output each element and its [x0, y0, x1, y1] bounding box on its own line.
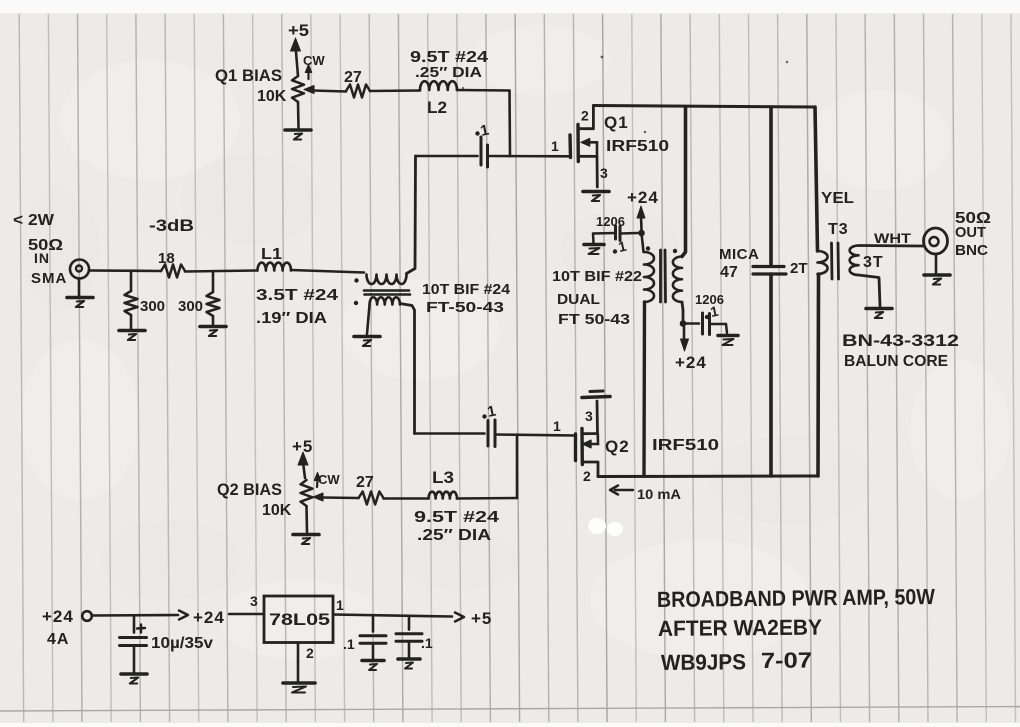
text 3 (reg input pin) [250, 593, 258, 609]
resistor 27 (Q2 bias) [359, 492, 384, 505]
text 18 [158, 250, 175, 267]
terminal +24 input [82, 611, 92, 621]
text OUT [955, 224, 986, 241]
text .25in DIA (L2) [415, 64, 482, 81]
wire attenuator middle [185, 271, 257, 272]
text 2T [790, 260, 808, 277]
svg-text:.1: .1 [421, 635, 433, 651]
svg-text:47: 47 [720, 264, 738, 281]
text BN-43-3312 [842, 331, 959, 350]
text 1 (Q1 gate pin) [551, 138, 559, 154]
svg-text:-3dB: -3dB [149, 216, 194, 235]
wire +24 to regulator [229, 613, 264, 616]
text 1206 (Q1 side) [596, 214, 625, 229]
svg-text:T3: T3 [828, 221, 849, 238]
svg-text:FT 50-43: FT 50-43 [558, 311, 630, 328]
transistor Q1 gate bar [568, 135, 572, 158]
inductor L2 [420, 81, 457, 90]
text 10K (Q1) [257, 88, 287, 105]
svg-text:WB9JPS: WB9JPS [661, 649, 746, 675]
text .1 (bypass B) [421, 635, 433, 651]
svg-text:YEL: YEL [821, 190, 854, 207]
wire MICA cap riser [769, 107, 773, 266]
text +5 output [471, 609, 492, 628]
svg-text:IRF510: IRF510 [606, 138, 669, 155]
arrow +24 down (Q2 side) [681, 327, 689, 351]
svg-text:BN-43-3312: BN-43-3312 [842, 331, 959, 350]
text BROADBAND PWR AMP, 50W [657, 584, 935, 612]
wire T3 primary to bottom rail [816, 274, 820, 476]
wire 27 to Q2 pot wiper with arrow [313, 493, 359, 501]
svg-text:FT-50-43: FT-50-43 [426, 299, 504, 316]
text 3T [863, 254, 884, 271]
text 2 (Q1 drain pin) [581, 108, 589, 124]
wire riser to C1 [416, 155, 478, 158]
wire T3 secondary to BNC (WHT) [859, 244, 924, 247]
wire C2 to Q2 gate [495, 435, 576, 436]
phase dot T2 left [646, 246, 650, 250]
text +24 (at regulator) [193, 608, 225, 627]
svg-text:10T BIF #24: 10T BIF #24 [422, 281, 511, 298]
text .1 at C2 [482, 403, 497, 421]
svg-text:.25″ DIA: .25″ DIA [415, 64, 482, 81]
text 10 mA [637, 486, 681, 502]
transformer T2 left winding [644, 252, 654, 302]
wire T2 right winding to +24 node (Q2 side) [682, 302, 683, 324]
ground below bypass B [398, 659, 420, 669]
text IRF510 (Q1) [606, 138, 669, 155]
svg-text:MICA: MICA [719, 246, 759, 263]
svg-text:3: 3 [585, 408, 593, 424]
text 300 (left) [140, 298, 165, 315]
potentiometer Q2 BIAS 10K [301, 480, 313, 532]
text 1 (Q2 gate pin) [553, 418, 561, 434]
wire +24 input with arrow [92, 611, 188, 620]
text DUAL [557, 291, 600, 308]
wire Q2 bias feed dropper [516, 435, 519, 499]
transistor Q1 body arrow [581, 138, 597, 156]
text WHT [874, 230, 912, 246]
wire T2 left winding to bottom rail [642, 302, 646, 476]
text Q1 [604, 113, 629, 132]
svg-text:4A: 4A [47, 631, 69, 648]
capacitor MICA 47 [753, 267, 786, 275]
svg-text:IN: IN [34, 250, 50, 266]
svg-text:+24: +24 [42, 607, 74, 626]
svg-text:SMA: SMA [31, 270, 67, 287]
resistor 27 (Q1 bias) [346, 85, 370, 98]
svg-text:BROADBAND PWR AMP, 50W: BROADBAND PWR AMP, 50W [657, 584, 935, 612]
ground below Q2 bias pot [293, 535, 319, 545]
ground below T1 secondary [354, 337, 380, 347]
wire dropper to C2 [415, 432, 485, 435]
transformer T2 right winding [673, 257, 682, 303]
text 2 (Q2 drain pin) [583, 468, 591, 484]
svg-text:2: 2 [581, 108, 589, 124]
transistor Q2 drain stub pin 2 [582, 462, 598, 477]
transistor Q2 source stub pin 3 [582, 401, 598, 434]
svg-text:CW: CW [318, 472, 340, 487]
svg-text:+5: +5 [292, 437, 313, 456]
svg-text:2: 2 [583, 468, 591, 484]
wire dropper to L3 [457, 497, 517, 500]
text FT-50-43 [426, 299, 504, 316]
svg-text:L3: L3 [432, 468, 454, 487]
capacitor 1206 .1 (Q2 side) [683, 313, 727, 335]
wire L1 to transformer T1 [291, 270, 364, 273]
text CW (Q2) [318, 472, 340, 487]
svg-text:.19″ DIA: .19″ DIA [256, 310, 328, 327]
text input impedance 50 ohm [28, 237, 63, 254]
svg-text:DUAL: DUAL [557, 291, 600, 308]
wire T1 primary to coupling cap C1 (riser) [407, 156, 416, 274]
text -3dB [149, 216, 194, 235]
text 3 (Q1 source pin) [600, 165, 608, 181]
wire node to T2 left winding [642, 233, 644, 252]
wire Q1 bias feed riser [508, 91, 511, 157]
text 2 (reg ground pin) [306, 645, 314, 661]
ground below regulator [283, 683, 315, 693]
text 4A [47, 631, 69, 648]
svg-text:10µ/35v: 10µ/35v [151, 635, 213, 652]
svg-text:3: 3 [250, 593, 258, 609]
wire 27 to pot wiper with arrow [304, 86, 346, 94]
wire T3 primary riser [815, 107, 818, 251]
text T3 [828, 221, 849, 238]
svg-text:10 mA: 10 mA [637, 486, 681, 502]
text +24 (Q1 side) [627, 188, 659, 207]
wire C1 to Q1 gate [488, 155, 571, 158]
text 1 (reg output pin) [336, 597, 344, 613]
text BALUN CORE [844, 353, 948, 370]
svg-text:2: 2 [306, 645, 314, 661]
wire dual transformer right winding riser [682, 107, 686, 257]
text +5 (Q2 bias) [292, 437, 313, 456]
svg-text:1: 1 [551, 138, 559, 154]
text 10T BIF #22 [552, 268, 642, 285]
arrow CW direction (Q1) [305, 65, 312, 80]
svg-text:Q2: Q2 [605, 437, 630, 456]
capacitor .1 bypass B [396, 616, 422, 658]
text 10T BIF #24 [422, 281, 511, 298]
svg-text:+24: +24 [627, 188, 659, 207]
svg-text:+24: +24 [193, 608, 225, 627]
text .1 (1206 Q1 side) [613, 238, 628, 255]
connector J2 BNC output [924, 228, 948, 254]
text input power rating <2W [13, 212, 55, 229]
svg-text:IRF510: IRF510 [652, 437, 719, 454]
transistor Q2 gate bar [574, 434, 577, 461]
arrow CW direction (Q2) [314, 473, 321, 488]
transformer T3 secondary winding 3T [850, 246, 859, 276]
transformer T1 primary winding [367, 275, 407, 285]
text SMA [31, 270, 67, 287]
svg-text:300: 300 [178, 298, 203, 315]
svg-text:3: 3 [600, 165, 608, 181]
text L1 [261, 246, 282, 263]
svg-text:+5: +5 [288, 21, 309, 40]
text 10u/35V [151, 635, 213, 652]
wire L2 to R 27 [370, 89, 420, 92]
svg-text:.25″ DIA: .25″ DIA [417, 527, 492, 544]
text .1 (bypass A) [343, 636, 355, 652]
wire SMA to attenuator [89, 269, 161, 272]
connector J1 SMA input [70, 260, 89, 279]
svg-text:+5: +5 [471, 609, 492, 628]
svg-text:L2: L2 [427, 98, 447, 117]
regulator U1 78L05 [264, 596, 333, 643]
text .1 (1206 Q2 side) [705, 303, 720, 320]
text +24 (Q2 side) [675, 353, 707, 372]
wire T1 secondary left to ground [367, 305, 370, 334]
svg-text:AFTER WA2EBY: AFTER WA2EBY [658, 615, 823, 641]
transistor Q2 channel bar [580, 429, 584, 465]
text L3 [432, 468, 454, 487]
svg-text:27: 27 [344, 69, 362, 86]
text Q2 [605, 437, 630, 456]
text .1 at C1 [475, 122, 490, 140]
text 27 (Q1 bias) [344, 69, 362, 86]
capacitor .1 bypass A [360, 616, 386, 660]
svg-text:+24: +24 [675, 353, 707, 372]
text L2 [427, 98, 447, 117]
potentiometer Q1 BIAS 10K [292, 76, 304, 128]
text IN [34, 250, 50, 266]
svg-text:Q1 BIAS: Q1 BIAS [215, 66, 282, 85]
ground below T3 secondary [866, 309, 892, 319]
svg-text:1: 1 [553, 418, 561, 434]
capacitor 1206 .1 (Q1 side) [593, 226, 639, 243]
text IRF510 (Q2) [652, 437, 719, 454]
wire L3 to R 27 (Q2) [384, 497, 429, 500]
text 9.5T #24 (L3) [414, 509, 499, 526]
svg-text:1: 1 [336, 597, 344, 613]
text BNC [955, 242, 988, 259]
text AFTER WA2EBY [658, 615, 823, 641]
wire regulator output to +5 with arrow [333, 613, 464, 622]
transformer T3 core [832, 243, 839, 279]
text YEL [821, 190, 854, 207]
node +24 feed (Q1 side) [638, 230, 645, 237]
text +24 input [42, 607, 74, 626]
svg-text:3T: 3T [863, 254, 884, 271]
text 300 (right) [178, 298, 203, 315]
svg-text:OUT: OUT [955, 224, 986, 241]
transistor Q2 body arrow [582, 434, 598, 448]
text MICA [719, 246, 759, 263]
transformer T3 primary winding 2T [818, 251, 828, 274]
phase dot T2 right [673, 249, 677, 253]
transformer T1 secondary winding [370, 297, 401, 304]
svg-text:2T: 2T [790, 260, 808, 277]
text + polarity [137, 625, 145, 633]
svg-text:< 2W: < 2W [13, 212, 55, 229]
svg-text:7-07: 7-07 [761, 648, 812, 673]
ground at BNC [924, 254, 950, 285]
text Q1 BIAS [215, 66, 282, 85]
svg-text:3.5T #24: 3.5T #24 [256, 287, 338, 304]
inductor L3 [429, 492, 458, 499]
text CW (Q1) [303, 53, 325, 68]
wire T3 secondary bottom to ground [859, 275, 881, 306]
text Q2 BIAS [217, 480, 282, 499]
text 10K (Q2) [262, 502, 292, 519]
text 78L05 [269, 610, 330, 629]
text 50 ohm OUT [955, 210, 991, 227]
text .25in DIA (L3) [417, 527, 492, 544]
node +24 feed (Q2 side) [680, 320, 687, 327]
svg-text:Q1: Q1 [604, 113, 629, 132]
svg-text:BALUN CORE: BALUN CORE [844, 353, 948, 370]
ground below Q1 bias pot [285, 130, 311, 140]
wire MICA cap to bottom rail [769, 274, 773, 476]
capacitor C1 .1 coupling [481, 137, 488, 167]
ground at Q2 source [582, 391, 610, 398]
ground at SMA connector [67, 279, 93, 308]
transistor Q1 source stub pin 3 [578, 156, 597, 187]
phase dot T1 primary [354, 278, 358, 282]
ground below 10u cap [121, 674, 147, 684]
ground at 1206 (Q2 side) [718, 336, 738, 346]
wire bottom rail Q2 drain [598, 475, 818, 479]
ground below right 300 [200, 327, 226, 337]
resistor 300 (input shunt left) [125, 271, 138, 329]
wire pot top arrow to +5 [291, 38, 301, 76]
text 47 [720, 264, 738, 281]
wire T1 secondary to coupling cap C2 (dropper) [400, 304, 415, 434]
text .19in DIA [256, 310, 328, 327]
svg-text:27: 27 [356, 474, 374, 491]
text 3.5T #24 [256, 287, 338, 304]
arrow +24 up (Q1 side) [637, 206, 645, 230]
wire reg pin 2 to ground [297, 643, 300, 682]
svg-text:78L05: 78L05 [269, 610, 330, 629]
arrow 10 mA [610, 486, 633, 495]
svg-text:CW: CW [303, 53, 325, 68]
transistor Q1 channel bar [576, 125, 580, 162]
svg-text:10K: 10K [257, 88, 287, 105]
text 1206 (Q2 side) [695, 292, 724, 307]
text WB9JPS 7-07 [661, 648, 812, 675]
svg-text:10T BIF #22: 10T BIF #22 [552, 268, 642, 285]
svg-text:9.5T #24: 9.5T #24 [414, 509, 499, 526]
inductor L1 [258, 263, 292, 271]
svg-text:WHT: WHT [874, 230, 912, 246]
text +5 (Q1 bias) [288, 21, 309, 40]
text 3 (Q2 source pin) [585, 408, 593, 424]
ground below left 300 [119, 331, 145, 341]
text 9.5T #24 (L2) [410, 49, 488, 66]
svg-text:Q2 BIAS: Q2 BIAS [217, 480, 282, 499]
resistor 18 series [161, 265, 185, 278]
phase dot T1 secondary [354, 301, 358, 305]
resistor 300 (input shunt right) [207, 272, 220, 326]
transformer T1 core [364, 291, 410, 295]
capacitor C2 .1 coupling [488, 420, 495, 447]
transformer T2 core [661, 250, 666, 302]
text FT 50-43 [558, 311, 630, 328]
wire Q2 pot top arrow to +5 [298, 452, 308, 478]
svg-text:BNC: BNC [955, 242, 988, 259]
text 27 (Q2 bias) [356, 474, 374, 491]
ground at 1206 (Q1 side) [584, 245, 604, 255]
ground below bypass A [362, 661, 384, 671]
wire L2 to riser [457, 89, 510, 92]
svg-text:L1: L1 [261, 246, 282, 263]
wire top rail Q1 drain [593, 106, 815, 108]
svg-text:.1: .1 [343, 636, 355, 652]
svg-text:10K: 10K [262, 502, 292, 519]
ground at Q1 source [583, 192, 609, 202]
capacitor 10u/35V [120, 616, 147, 673]
svg-text:300: 300 [140, 298, 165, 315]
transistor Q1 drain stub pin 2 [578, 106, 593, 129]
